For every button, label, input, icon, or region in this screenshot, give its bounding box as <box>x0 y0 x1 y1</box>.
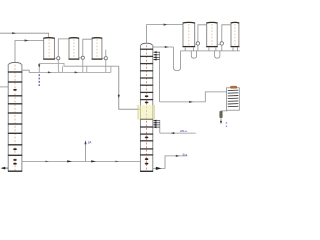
arrow down on branch <box>38 64 40 67</box>
trap device on drain <box>220 112 222 118</box>
vessel D1 <box>43 38 55 59</box>
feed arrows upper group into T2 <box>153 51 159 102</box>
wire long bottoms line from T1 to T2 <box>22 160 140 162</box>
wire riser P1 to D2 top <box>58 39 69 57</box>
seal loop U1 under right manifold <box>191 51 196 58</box>
wire riser P2 to D3 top <box>83 39 92 56</box>
arrow thick 2 on bottoms line <box>91 160 96 162</box>
wire bottom outlet of T1 with left arrow <box>2 167 8 169</box>
wire exchanger bottom outlet <box>221 110 227 111</box>
wire seal leg P1 <box>58 60 60 73</box>
arrow on feed line <box>12 32 16 34</box>
arrow 2 on collector line <box>75 71 79 73</box>
wire T2 overhead to J seal loop and manifold <box>153 47 240 71</box>
wire inlet at left edge into column T1 <box>0 86 8 88</box>
wire overhead line T2 to vessel E1 <box>147 25 183 44</box>
wire feed line from left edge to vessel D1 top <box>0 33 49 37</box>
column T2 middle tray column <box>140 43 153 171</box>
seal loop U2 under right manifold <box>215 51 220 58</box>
vessel D2 <box>69 38 80 59</box>
svg-text:B.a: B.a <box>183 153 188 157</box>
exchanger coil <box>228 90 239 107</box>
arrow small on bottoms line <box>45 161 49 163</box>
vessel E3 <box>231 22 240 46</box>
wire lower feed supply line <box>160 132 196 134</box>
wire riser P5 to E3 top <box>222 25 231 51</box>
arrow on side draw <box>176 155 180 157</box>
pump P1 circle <box>54 57 56 59</box>
wire from feed header to exchanger <box>160 92 227 102</box>
trays of column T2 <box>140 49 153 155</box>
svg-text:aBLa: aBLa <box>180 129 187 133</box>
valve dots in column T1 <box>13 89 17 165</box>
wire stubs E1 to manifold <box>185 47 237 51</box>
wire riser stub P3 <box>105 50 107 57</box>
wire riser P4 to E2 top <box>198 25 207 51</box>
highlight yellow band on T2 <box>138 105 155 120</box>
trays of column T1 <box>8 72 22 155</box>
arrow down on transfer line <box>118 95 120 98</box>
arrow small 2 on bottoms line <box>115 161 119 163</box>
highlight band edges <box>137 105 139 120</box>
wire manifold A under left vessels <box>39 63 119 66</box>
pump P3 circle <box>102 57 104 59</box>
wire drain with down arrow <box>220 118 222 122</box>
wire vertical transfer to column T2 <box>119 66 147 109</box>
valve dots in column T2 <box>145 95 149 164</box>
arrow on overhead line <box>25 39 29 41</box>
arrow on exchanger line <box>189 101 193 103</box>
wire left column overhead to vessel D1 side <box>15 41 44 63</box>
wire seal leg P2 <box>82 59 84 72</box>
pump P2 circle <box>79 57 81 59</box>
wire low collector line <box>39 71 111 73</box>
vessel E2 <box>206 22 218 46</box>
vessel D3 <box>92 38 103 59</box>
feed arrows lower group into T2 <box>153 120 160 134</box>
instrument blue dashed line <box>38 74 40 87</box>
arrow on lower feed line <box>171 132 175 134</box>
wire branch riser with up arrow <box>85 143 87 161</box>
arrow thick at T2 bottom <box>156 167 162 170</box>
wire seal riser stubs <box>62 66 111 72</box>
pump P4 circle <box>195 43 197 45</box>
arrow thick on bottoms line <box>67 160 72 162</box>
column T1 tray column left <box>8 62 22 171</box>
vessel E1 <box>183 22 196 46</box>
arrow on overhead to loop <box>165 46 169 48</box>
wire seal leg P3 <box>105 60 107 73</box>
pump P5 circle <box>217 43 220 45</box>
arrow on collector line <box>48 71 52 73</box>
exchanger top cap orange <box>230 86 236 88</box>
wire side draw from T2 <box>153 156 188 169</box>
exchanger H1 shell <box>227 86 240 110</box>
arrow on T2 overhead <box>164 24 168 26</box>
wire branch from manifold to column T1 <box>22 63 39 72</box>
